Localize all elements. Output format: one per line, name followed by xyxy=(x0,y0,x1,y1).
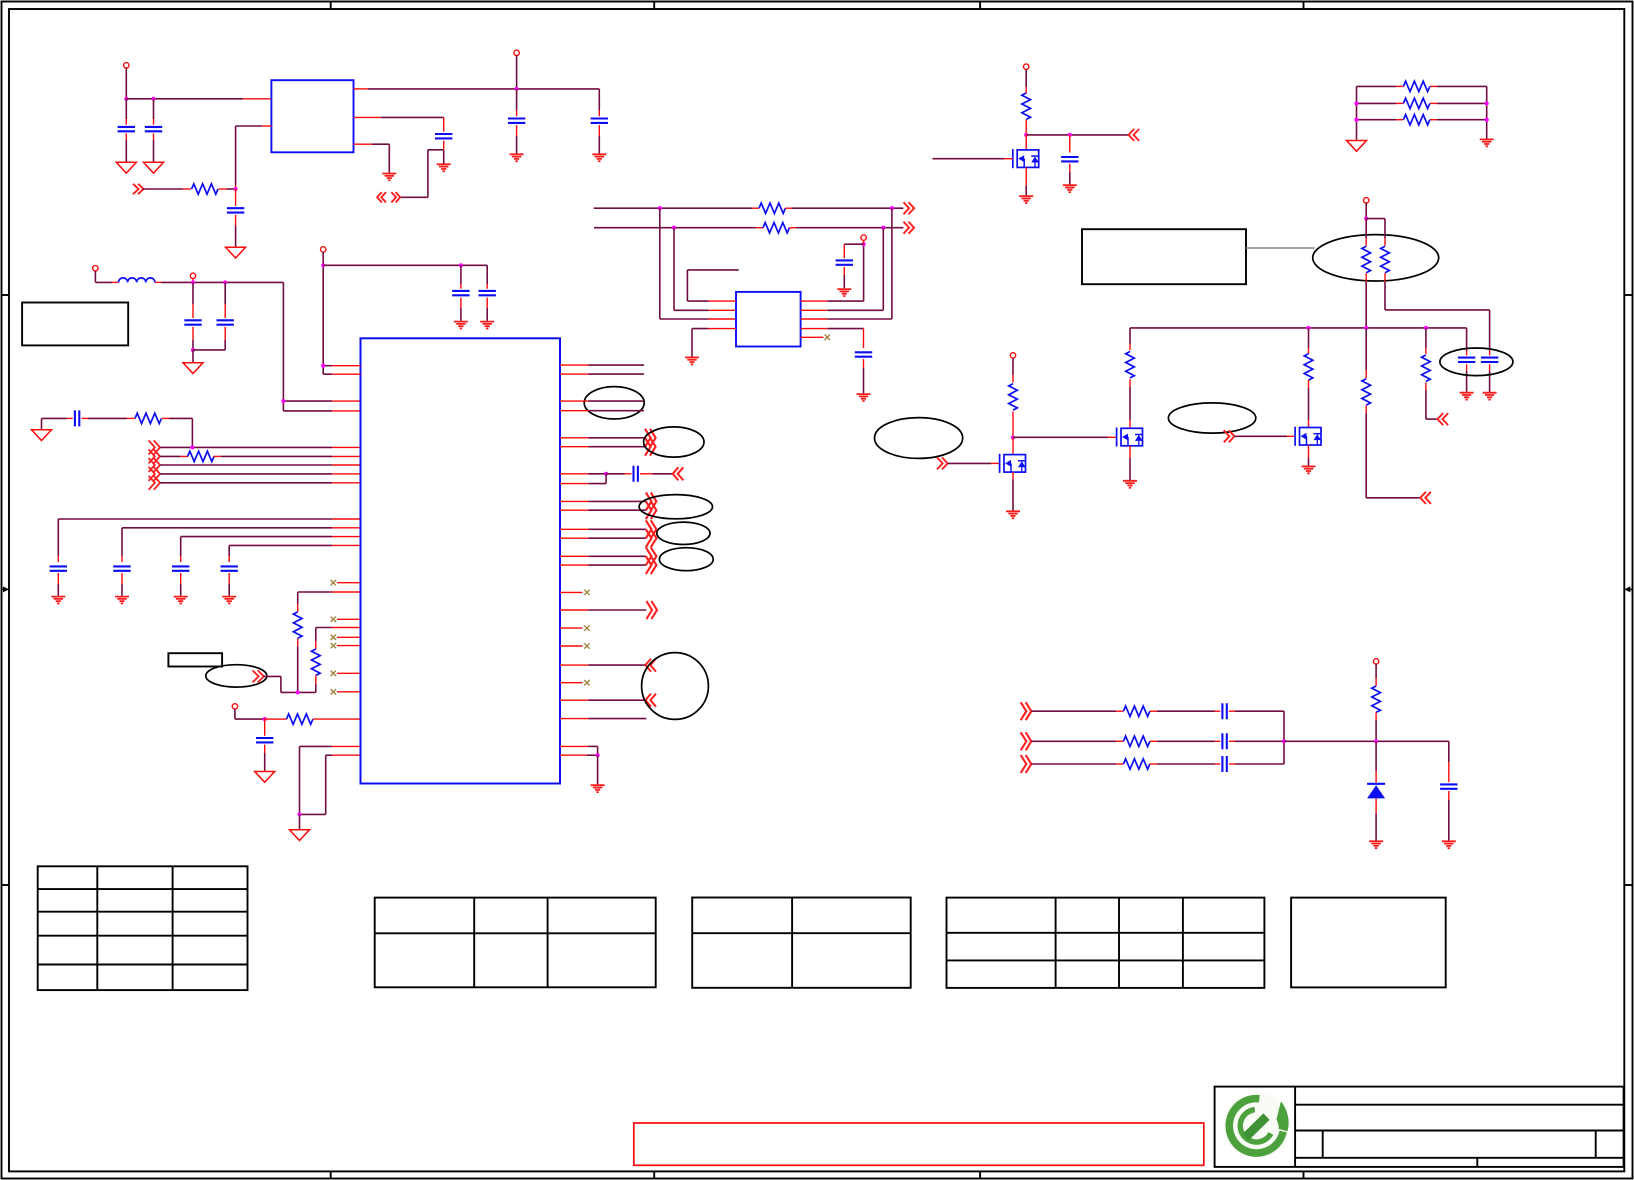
wire U1 right r12 xyxy=(560,564,646,566)
port arrow J3 xyxy=(1021,755,1032,773)
capacitor C21 lead2 xyxy=(460,298,462,321)
wire regulator input xyxy=(126,98,271,100)
wire U1 right r10 xyxy=(560,537,646,539)
port arrow cap row xyxy=(673,467,684,480)
ground I2 xyxy=(32,430,52,441)
wire I2 left xyxy=(42,418,73,429)
wire J3 right xyxy=(1229,763,1284,765)
port arrow row3 xyxy=(149,458,160,472)
table notes 3 xyxy=(947,898,1265,988)
ground RN1 left xyxy=(1347,141,1367,152)
note box I xyxy=(22,303,128,346)
border mid-left arrow xyxy=(2,586,10,592)
ground C19 xyxy=(255,772,275,783)
capacitor C8 xyxy=(855,352,872,356)
node U1 vdd junction xyxy=(321,263,325,267)
power symbol L1 xyxy=(93,266,98,271)
ground C7 xyxy=(837,289,851,296)
table notes 4 xyxy=(1291,898,1446,988)
wire EN resistor left xyxy=(142,188,191,190)
ground Q1 xyxy=(1019,196,1033,203)
resistor R21 xyxy=(1123,706,1149,716)
capacitor C5 lead xyxy=(598,89,600,116)
wire cap row right xyxy=(560,473,606,475)
wire J3 left xyxy=(1031,763,1123,765)
wire Y1 pin4 left xyxy=(692,329,736,357)
port arrow G4 xyxy=(1438,413,1449,425)
wire R5 top xyxy=(1025,69,1027,93)
annotation ellipse R2 xyxy=(644,427,704,457)
resistor R22 xyxy=(1123,736,1149,746)
wire I6 stem xyxy=(235,709,265,719)
power symbol VDD2 xyxy=(190,273,195,278)
node OSC2 right junction xyxy=(881,226,885,230)
node G rail j2 xyxy=(1364,326,1368,330)
wire R12 top xyxy=(1012,358,1014,382)
crystal module Y1 xyxy=(736,292,801,347)
capacitor C6 xyxy=(435,134,452,138)
wire U1 right r4 xyxy=(560,410,644,412)
note box F xyxy=(1082,229,1246,284)
wire cap row2 xyxy=(122,528,361,562)
wire cap row3 xyxy=(181,537,361,562)
wire J bus xyxy=(1283,711,1285,764)
resistor R7 xyxy=(1403,98,1429,108)
wire C26 bottom xyxy=(1448,791,1450,841)
wire row4 xyxy=(160,473,361,475)
wire nc left 1 xyxy=(337,582,361,584)
port arrow row4 xyxy=(149,467,160,481)
port arrow I5 xyxy=(253,670,264,682)
wire U1 right r3 xyxy=(560,400,644,402)
node VOUT junction xyxy=(515,87,519,91)
wire G rail xyxy=(1130,327,1467,329)
no-connect left 4 xyxy=(331,643,336,648)
port arrow G3 xyxy=(1420,492,1431,504)
capacitor C13 lead xyxy=(224,282,226,318)
resistor R8 xyxy=(1403,115,1429,125)
capacitor C2 lead xyxy=(153,99,155,125)
ground RN1 right xyxy=(1480,139,1494,146)
ground C6 xyxy=(437,164,451,171)
ground Y1 pin4 xyxy=(685,357,699,364)
resistor R23 xyxy=(1123,759,1149,769)
transistor Q1 xyxy=(1013,149,1039,168)
wire C11 bottom xyxy=(1489,364,1491,392)
power symbol D1 xyxy=(1023,64,1028,69)
wire cap row4 xyxy=(229,545,360,562)
capacitor C18 xyxy=(221,566,238,570)
port arrow OSC2 out xyxy=(904,222,915,234)
wire R20 left xyxy=(265,718,287,720)
capacitor C5 xyxy=(591,119,608,123)
wire J1 mid xyxy=(1150,710,1221,712)
port arrow right r6 xyxy=(645,438,656,456)
wire VOUT stem xyxy=(516,56,518,89)
wire C12 gnd xyxy=(192,350,194,362)
ground C12 xyxy=(183,363,203,374)
inductor L1 xyxy=(119,278,155,283)
power symbol VIN1 xyxy=(124,63,129,68)
capacitor C16 xyxy=(113,566,130,570)
node I1 junction xyxy=(191,280,195,284)
wire U2 gnd pin xyxy=(354,144,390,173)
resistor R9 xyxy=(1362,246,1371,272)
ground U2 xyxy=(382,174,396,181)
node VDD pin junction xyxy=(281,399,285,403)
ground C8 xyxy=(857,394,871,401)
capacitor C3 xyxy=(227,208,244,212)
node I5 junction xyxy=(296,690,300,694)
wire U2 pin EN xyxy=(236,126,272,189)
ground Q2 xyxy=(1006,511,1020,518)
wire I5 link xyxy=(263,676,281,692)
ground C11 xyxy=(1483,393,1497,400)
capacitor C25 xyxy=(1222,756,1226,772)
wire nc right 2 xyxy=(560,627,583,629)
wire J1 left xyxy=(1031,710,1123,712)
wire C6 to port xyxy=(400,150,444,198)
port arrow right r13 xyxy=(646,601,657,619)
wire U1 right r8 xyxy=(560,509,646,511)
wire RN1 row2 xyxy=(1357,102,1487,104)
table notes 1 xyxy=(375,898,656,988)
wire cap row2 gnd xyxy=(121,573,123,596)
node gnd right junction xyxy=(596,753,600,757)
node OSC1 right junction xyxy=(890,206,894,210)
wire U1 right r6 xyxy=(560,446,645,448)
port arrow J2 xyxy=(1021,732,1032,750)
diode D1 xyxy=(1367,784,1385,799)
power symbol I6 xyxy=(232,704,237,709)
wire L1 out xyxy=(155,281,284,283)
wire Y1 pin3 left xyxy=(660,208,736,319)
title block xyxy=(1215,1087,1624,1167)
wire RN1 left rail xyxy=(1356,86,1358,139)
capacitor C1 lead2 xyxy=(125,134,127,162)
node A2 junction xyxy=(151,97,155,101)
wire R13 top xyxy=(1308,328,1310,354)
wire R19 top xyxy=(316,628,361,650)
ground C16 xyxy=(115,597,129,604)
wire bus OSC2 right xyxy=(789,227,903,229)
wire Q3 gate net xyxy=(1013,436,1117,438)
IC U1 xyxy=(361,338,561,783)
ground C4 xyxy=(510,154,524,161)
wire Y1 pin2 right xyxy=(801,228,884,311)
capacitor C1 lead xyxy=(125,99,127,125)
wire bus OSC1 right xyxy=(785,207,903,209)
wire D1 bottom xyxy=(1375,798,1377,840)
port arrow right r9 xyxy=(646,520,657,538)
resistor R18 xyxy=(293,612,302,638)
node cap row junction xyxy=(604,472,608,476)
port arrow right r8 xyxy=(646,501,657,519)
node OSC1 left junction xyxy=(658,206,662,210)
port arrow OSC1 out xyxy=(904,202,915,214)
ground C2 xyxy=(144,162,164,173)
wire R18 top xyxy=(298,592,361,612)
capacitor C21 xyxy=(452,291,469,295)
no-connect Y1 pin5 xyxy=(825,335,830,340)
capacitor C23 xyxy=(1222,703,1226,719)
resistor R16 xyxy=(135,413,161,423)
port arrow right r11 xyxy=(646,547,657,565)
wire U1 right r2 xyxy=(560,373,644,375)
wire Q4 gate xyxy=(1234,435,1295,437)
node gnd junction xyxy=(297,812,301,816)
wire Q2 gate xyxy=(948,462,1000,464)
ground C9 xyxy=(1063,185,1077,192)
no-connect left 2 xyxy=(331,617,336,622)
ground C15 xyxy=(51,597,65,604)
capacitor C24 xyxy=(1222,733,1226,749)
capacitor C1 xyxy=(118,127,135,131)
resistor R4 xyxy=(763,223,789,233)
wire nc right 4 xyxy=(560,682,583,684)
node RN1 L2 xyxy=(1354,101,1358,105)
node J bus junction xyxy=(1282,739,1286,743)
annotation ellipse G2 xyxy=(1168,403,1255,433)
wire cap branch xyxy=(560,474,606,484)
wire RN1 right rail xyxy=(1486,86,1488,138)
transistor Q4 xyxy=(1295,427,1321,446)
port arrow right r10 xyxy=(646,529,657,547)
node C12 junction xyxy=(191,348,195,352)
wire C7 bottom xyxy=(843,267,845,288)
wire Y1 vcc stem xyxy=(863,240,865,244)
annotation ellipse G3 xyxy=(1440,348,1513,376)
wire IC gnd right2 xyxy=(560,754,598,756)
wire cap row1 gnd xyxy=(57,573,59,596)
resistor R6 xyxy=(1403,81,1429,91)
wire gnd right stem xyxy=(597,755,599,784)
ground C18 xyxy=(222,597,236,604)
ground D1 xyxy=(1369,841,1383,848)
resistor R3 xyxy=(759,203,785,213)
wire Y1 pin5 stub xyxy=(801,336,824,338)
ground IC right xyxy=(591,785,605,792)
wire C10 bottom xyxy=(1466,364,1468,392)
note box red xyxy=(634,1123,1204,1165)
wire R10 top xyxy=(1366,219,1385,246)
no-connect right 2 xyxy=(584,625,589,630)
capacitor C4 lead2 xyxy=(516,125,518,153)
resistor R13 xyxy=(1304,354,1313,380)
resistor R24 xyxy=(1372,686,1381,712)
wire row3 xyxy=(160,464,361,466)
wire R10 bottom xyxy=(1385,273,1490,350)
node EN junction xyxy=(234,187,238,191)
no-connect left 3 xyxy=(331,635,336,640)
wire U1 right r9 xyxy=(560,528,646,530)
transistor Q3 xyxy=(1117,428,1143,447)
wire Y1 pin2 left xyxy=(674,228,736,311)
capacitor C14 xyxy=(75,410,79,426)
capacitor C12 lead xyxy=(192,282,194,318)
capacitor C12 xyxy=(184,320,201,324)
wire U1 right r15 xyxy=(560,699,645,701)
node G rail j3 xyxy=(1424,326,1428,330)
wire cap row right2 xyxy=(640,473,673,475)
wire C9 bottom xyxy=(1069,164,1071,185)
no-connect right 1 xyxy=(584,590,589,595)
wire R9 bottom xyxy=(1365,273,1367,328)
wire C7 top xyxy=(844,244,863,258)
capacitor C4 xyxy=(508,119,525,123)
node D junction xyxy=(1024,133,1028,137)
port arrow right r15 xyxy=(645,694,656,707)
wire U1 vdd xyxy=(323,252,360,374)
port arrow D input xyxy=(1129,129,1140,141)
wire bus OSC2 xyxy=(594,227,763,229)
wire bus OSC1 xyxy=(594,207,759,209)
resistor R14 xyxy=(1362,379,1371,405)
capacitor C5 lead2 xyxy=(598,125,600,153)
wire cap row4 gnd xyxy=(228,573,230,596)
capacitor C22 lead xyxy=(486,265,488,288)
node U1 vdd pin junction xyxy=(321,364,325,368)
wire Q1 gate xyxy=(933,158,1013,160)
power symbol Y1 VCC xyxy=(861,235,866,240)
node D cap junction xyxy=(1068,133,1072,137)
wire I2 right xyxy=(162,418,193,447)
ground Q4 xyxy=(1302,466,1316,473)
wire R24 top xyxy=(1375,664,1377,686)
wire I2 mid xyxy=(82,417,135,419)
wire nc left 2 xyxy=(337,618,361,620)
wire I5 rail xyxy=(281,691,316,693)
node I6 junction xyxy=(263,717,267,721)
node A1 junction xyxy=(124,97,128,101)
port arrow bidir A xyxy=(377,192,400,202)
wire Q2 drain xyxy=(1012,438,1014,455)
wire R13 to Q4 xyxy=(1308,380,1310,427)
wire cap row3 gnd xyxy=(180,573,182,596)
table revision history xyxy=(38,866,248,990)
wire D net xyxy=(1026,134,1128,136)
power symbol F xyxy=(1364,198,1369,203)
ground C10 xyxy=(1460,393,1474,400)
ground C21 xyxy=(454,322,468,329)
port arrow right r7 xyxy=(646,492,657,510)
no-connect right 4 xyxy=(584,680,589,685)
wire EN resistor right xyxy=(219,188,236,190)
capacitor C22 xyxy=(479,291,496,295)
capacitor C6 lead2 xyxy=(443,141,445,164)
wire U1 right r13 xyxy=(560,609,646,611)
capacitor C13 xyxy=(217,320,234,324)
node G rail j1 xyxy=(1306,326,1310,330)
wire J3 mid xyxy=(1150,763,1221,765)
annotation ellipse R4 xyxy=(657,522,710,544)
capacitor C20 xyxy=(634,466,638,482)
capacitor C19 lead2 xyxy=(264,745,266,771)
annotation ellipse R3 xyxy=(639,495,712,519)
border mid-right arrow xyxy=(1624,586,1632,592)
wire vdd caps xyxy=(323,264,487,266)
capacitor C19 xyxy=(256,738,273,742)
wire R11 top xyxy=(1129,328,1131,350)
wire gnd stem xyxy=(299,814,301,829)
node Y1 vcc junction xyxy=(862,242,866,246)
resistor R19 xyxy=(312,649,321,675)
port arrow row2 xyxy=(149,449,160,463)
capacitor C4 lead xyxy=(516,89,518,116)
port arrow right r12 xyxy=(646,556,657,574)
wire VIN1 stem xyxy=(125,68,127,99)
capacitor C12 lead2 xyxy=(192,327,194,350)
node RN1 R2 xyxy=(1485,101,1489,105)
port arrow EN input xyxy=(133,184,144,194)
wire J2 right xyxy=(1229,740,1284,742)
wire IC gnd right xyxy=(560,746,598,755)
ground IC left xyxy=(290,830,310,841)
capacitor C21 lead xyxy=(460,265,462,288)
wire nc left 6 xyxy=(337,691,361,693)
note box I5 xyxy=(168,653,222,666)
capacitor C3 lead2 xyxy=(235,215,237,247)
capacitor C26 xyxy=(1440,784,1457,788)
resistor R10 xyxy=(1381,246,1390,272)
wire U1 right r11 xyxy=(560,555,646,557)
node OSC2 left junction xyxy=(672,226,676,230)
capacitor C3 lead xyxy=(235,189,237,206)
wire U2 bypass pin xyxy=(354,117,444,131)
wire R15 top xyxy=(1425,328,1427,354)
wire R14 top xyxy=(1365,328,1367,378)
power symbol G1 xyxy=(1010,353,1015,358)
wire nc left 4 xyxy=(337,645,361,647)
annotation ellipse I5 xyxy=(206,665,267,687)
resistor R2 xyxy=(192,184,218,194)
wire nc left 5 xyxy=(337,672,361,674)
ground C22 xyxy=(480,322,494,329)
regulator U2 xyxy=(271,80,353,152)
wire R20 right xyxy=(313,718,361,720)
port arrow right r5 xyxy=(645,429,656,447)
wire U1 right r5 xyxy=(560,437,645,439)
port arrow row5 xyxy=(149,476,160,490)
wire R5 bottom xyxy=(1025,119,1027,134)
wire row2 left xyxy=(160,455,188,457)
annotation ellipse R1 xyxy=(584,387,644,419)
no-connect left 5 xyxy=(331,671,336,676)
wire U1 right r1 xyxy=(560,364,644,366)
wire R24 bottom xyxy=(1375,712,1377,741)
node J diode junction xyxy=(1374,739,1378,743)
capacitor C11 xyxy=(1481,358,1498,362)
ground C26 xyxy=(1442,841,1456,848)
capacitor C10 xyxy=(1458,358,1475,362)
wire C9 top xyxy=(1069,135,1071,153)
ground C5 xyxy=(592,154,606,161)
capacitor C2 lead2 xyxy=(153,134,155,162)
wire cap row mid xyxy=(606,473,631,475)
capacitor C22 lead2 xyxy=(486,298,488,321)
wire nc left 3 xyxy=(337,636,361,638)
wire IC gnd left xyxy=(300,746,361,814)
wire R15 bottom xyxy=(1426,382,1438,419)
port arrow G1 input xyxy=(937,457,948,469)
wire Y1 pin3 right xyxy=(801,208,892,319)
wire nc right 1 xyxy=(560,591,583,593)
wire R12 bottom xyxy=(1012,411,1014,437)
no-connect left 1 xyxy=(331,580,336,585)
wire R11 to Q3 xyxy=(1129,379,1131,428)
power symbol U1 VDD xyxy=(321,247,326,252)
resistor R12 xyxy=(1009,384,1018,410)
